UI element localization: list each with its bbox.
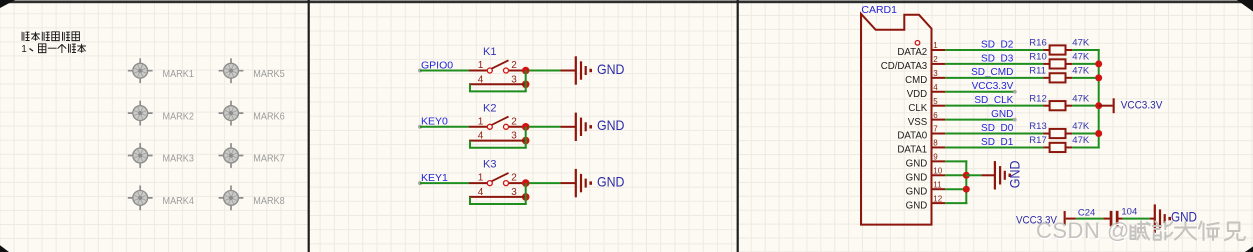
- svg-text:CD/DATA3: CD/DATA3: [881, 61, 927, 72]
- svg-text:SD_D2: SD_D2: [981, 39, 1014, 50]
- svg-text:MARK3: MARK3: [163, 153, 195, 165]
- svg-text:2: 2: [511, 116, 517, 127]
- svg-text:K2: K2: [483, 102, 496, 114]
- svg-text:CARD1: CARD1: [861, 4, 897, 16]
- svg-text:GND: GND: [991, 109, 1013, 120]
- svg-text:GND: GND: [906, 200, 928, 211]
- svg-text:SD_D3: SD_D3: [981, 53, 1014, 64]
- svg-text:6: 6: [933, 111, 938, 120]
- svg-text:R12: R12: [1029, 93, 1046, 104]
- svg-text:CSDN @: CSDN @: [1036, 218, 1130, 243]
- svg-text:MARK6: MARK6: [253, 110, 285, 122]
- svg-text:47K: 47K: [1072, 135, 1090, 146]
- svg-text:4: 4: [933, 83, 938, 92]
- svg-text:R10: R10: [1029, 52, 1046, 63]
- svg-text:VCC3.3V: VCC3.3V: [972, 81, 1014, 92]
- svg-text:MARK1: MARK1: [163, 68, 195, 80]
- svg-text:SD_CMD: SD_CMD: [971, 67, 1013, 78]
- svg-text:GND: GND: [906, 186, 928, 197]
- svg-text:DATA1: DATA1: [897, 145, 927, 156]
- svg-text:7: 7: [933, 125, 938, 134]
- svg-text:KEY1: KEY1: [421, 172, 448, 184]
- svg-text:SD_D1: SD_D1: [981, 137, 1014, 148]
- svg-text:MARK7: MARK7: [253, 153, 285, 165]
- svg-text:1: 1: [933, 41, 938, 50]
- svg-text:GND: GND: [597, 174, 625, 190]
- svg-text:R17: R17: [1029, 135, 1046, 146]
- svg-text:11: 11: [933, 180, 942, 189]
- svg-text:GND: GND: [1007, 161, 1023, 189]
- svg-text:R13: R13: [1029, 121, 1046, 132]
- svg-text:DATA0: DATA0: [897, 131, 927, 142]
- svg-text:5: 5: [933, 97, 938, 106]
- svg-text:SD_D0: SD_D0: [981, 123, 1014, 134]
- svg-text:8: 8: [933, 139, 938, 148]
- svg-text:GND: GND: [597, 117, 625, 133]
- svg-text:1: 1: [21, 44, 27, 55]
- svg-text:9: 9: [933, 153, 938, 162]
- svg-text:GND: GND: [597, 61, 625, 77]
- svg-text:MARK5: MARK5: [253, 68, 285, 80]
- svg-text:47K: 47K: [1072, 121, 1090, 132]
- svg-text:VDD: VDD: [907, 89, 927, 100]
- svg-text:VCC3.3V: VCC3.3V: [1121, 100, 1163, 112]
- svg-text:2: 2: [933, 55, 938, 64]
- svg-text:GND: GND: [906, 172, 928, 183]
- svg-text:10: 10: [933, 166, 942, 175]
- svg-text:R11: R11: [1029, 66, 1046, 77]
- svg-text:47K: 47K: [1072, 52, 1090, 63]
- svg-text:2: 2: [511, 60, 517, 71]
- svg-text:104: 104: [1121, 207, 1137, 218]
- svg-text:MARK8: MARK8: [253, 195, 285, 207]
- svg-text:47K: 47K: [1072, 93, 1090, 104]
- svg-text:2: 2: [511, 173, 517, 184]
- svg-text:1: 1: [478, 173, 484, 184]
- svg-text:KEY0: KEY0: [421, 116, 448, 128]
- svg-text:K1: K1: [483, 46, 496, 58]
- svg-text:MARK4: MARK4: [163, 195, 195, 207]
- svg-text:DATA2: DATA2: [897, 47, 927, 58]
- svg-text:47K: 47K: [1072, 38, 1090, 49]
- svg-text:12: 12: [933, 194, 942, 203]
- svg-text:VSS: VSS: [908, 117, 928, 128]
- svg-text:R16: R16: [1029, 38, 1046, 49]
- svg-text:CMD: CMD: [905, 75, 927, 86]
- svg-text:CLK: CLK: [908, 103, 927, 114]
- svg-text:K3: K3: [483, 159, 496, 171]
- svg-text:47K: 47K: [1072, 66, 1090, 77]
- svg-text:1: 1: [478, 60, 484, 71]
- svg-text:GND: GND: [906, 159, 928, 170]
- svg-text:C24: C24: [1078, 208, 1095, 219]
- svg-text:SD_CLK: SD_CLK: [974, 95, 1013, 106]
- svg-text:3: 3: [933, 69, 938, 78]
- svg-text:GND: GND: [1171, 209, 1197, 225]
- svg-text:1: 1: [478, 116, 484, 127]
- svg-text:MARK2: MARK2: [163, 110, 195, 122]
